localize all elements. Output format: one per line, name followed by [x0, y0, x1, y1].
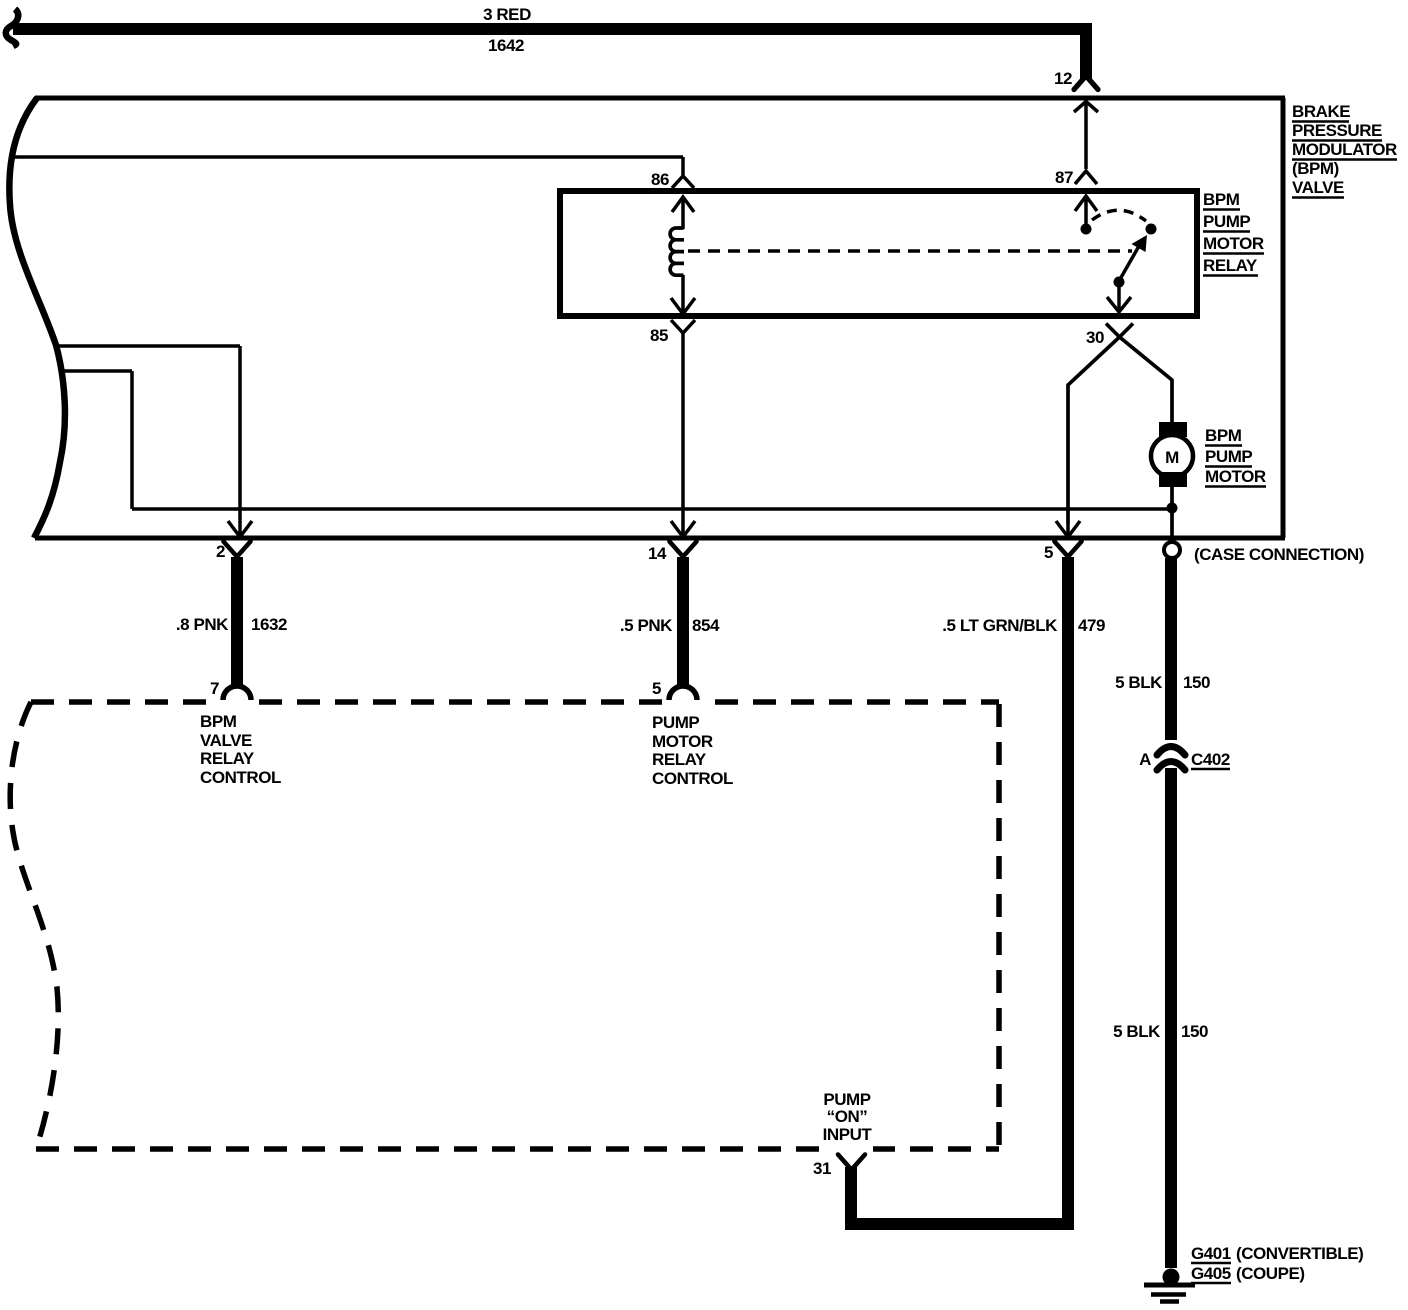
relay switch blade with arrowhead	[1119, 246, 1139, 281]
relay armature link (dashed)	[688, 249, 1132, 253]
white gap for connector 31	[830, 1143, 873, 1155]
BPM pump motor bottom terminal	[1159, 472, 1187, 487]
arrow at valve box edge (pin 14 exit)	[671, 521, 695, 537]
svg-text:“ON”: “ON”	[827, 1107, 868, 1126]
wire drop to 86	[681, 157, 685, 175]
wire internal ground bus (long horizontal)	[132, 507, 1172, 511]
junction dot at motor ground	[1167, 503, 1178, 514]
relay contact travel arc (dashed)	[1092, 210, 1146, 221]
connector pin 30 split wire (to motor)	[1106, 324, 1172, 425]
svg-text:3 RED: 3 RED	[483, 5, 531, 24]
svg-text:.5 PNK: .5 PNK	[620, 616, 673, 635]
wire internal ground stub (horizontal)	[62, 369, 132, 373]
connector C402 (inline, double chevron)	[1157, 747, 1185, 771]
svg-text:BPM: BPM	[200, 712, 237, 731]
BPM pump motor body	[1151, 435, 1193, 477]
svg-text:M: M	[1165, 448, 1179, 467]
connector pin 7 (male dome)	[223, 686, 251, 700]
svg-text:C402: C402	[1191, 750, 1230, 769]
wire .8 PNK (thick)	[231, 557, 243, 685]
svg-text:5 BLK: 5 BLK	[1113, 1022, 1161, 1041]
case connection terminal (open circle)	[1164, 542, 1180, 558]
BPM valve box right edge	[1281, 98, 1286, 538]
BPM valve box bottom edge	[35, 536, 1285, 541]
BPM pump motor top terminal	[1159, 422, 1187, 437]
connector pin 30 split wire (to pin 5)	[1068, 324, 1133, 525]
wire continuation curl (left end of 3 RED)	[6, 9, 18, 46]
svg-text:CONTROL: CONTROL	[652, 769, 733, 788]
arrow into relay at 87	[1075, 196, 1097, 224]
wire motor to case connection	[1170, 487, 1174, 541]
relay pivot 30 (dot)	[1114, 277, 1125, 288]
svg-text:1642: 1642	[488, 36, 524, 55]
dashed module box top edge	[31, 699, 999, 705]
svg-text:(CASE CONNECTION): (CASE CONNECTION)	[1194, 545, 1364, 564]
white gap for connector 5	[664, 695, 702, 708]
dashed module box bottom edge	[36, 1146, 999, 1152]
svg-text:RELAY: RELAY	[652, 750, 707, 769]
svg-text:RELAY: RELAY	[1203, 256, 1258, 275]
label BPM PUMP MOTOR	[1205, 426, 1266, 487]
label BPM PUMP MOTOR RELAY	[1203, 190, 1264, 276]
svg-text:(CONVERTIBLE): (CONVERTIBLE)	[1236, 1244, 1363, 1263]
svg-text:PRESSURE: PRESSURE	[1292, 121, 1382, 140]
svg-text:86: 86	[651, 170, 669, 189]
relay contact (dot, right)	[1146, 224, 1157, 235]
svg-text:150: 150	[1181, 1022, 1208, 1041]
svg-text:PUMP: PUMP	[652, 713, 699, 732]
BPM valve box top edge	[35, 96, 1285, 101]
arrow out of relay at 85	[671, 298, 695, 314]
wire 85 down to box edge	[681, 333, 685, 524]
svg-text:INPUT: INPUT	[823, 1125, 873, 1144]
svg-text:MOTOR: MOTOR	[1203, 234, 1264, 253]
svg-text:.5 LT GRN/BLK: .5 LT GRN/BLK	[942, 616, 1058, 635]
connector pin 85 (female Y)	[671, 320, 695, 333]
label PUMP "ON" INPUT	[823, 1090, 873, 1144]
label BPM VALVE RELAY CONTROL	[200, 712, 281, 787]
wire 3 RED drop to pin 12	[1080, 23, 1092, 79]
svg-text:854: 854	[692, 616, 720, 635]
wire internal ground stub (vertical)	[130, 371, 134, 509]
connector pin 87 (male chevron)	[1075, 171, 1097, 184]
svg-text:7: 7	[210, 679, 219, 698]
wire .5 LT GRN/BLK (thick, down / left / up to pin 31)	[851, 557, 1068, 1224]
arrow out of relay at 30	[1107, 297, 1131, 312]
label PUMP MOTOR RELAY CONTROL	[652, 713, 733, 788]
svg-text:MOTOR: MOTOR	[652, 732, 713, 751]
connector pin 14 (female cup)	[670, 542, 697, 556]
svg-text:(BPM): (BPM)	[1292, 159, 1339, 178]
connector pin 86 (male chevron)	[672, 176, 694, 188]
ground symbol G401/G405	[1144, 1277, 1195, 1302]
svg-text:G405: G405	[1191, 1264, 1231, 1283]
svg-text:479: 479	[1078, 616, 1105, 635]
svg-text:A: A	[1139, 750, 1151, 769]
svg-text:1632: 1632	[251, 615, 287, 634]
svg-text:BRAKE: BRAKE	[1292, 102, 1350, 121]
dashed module box right edge	[996, 704, 1002, 1149]
connector pin 31 (female cup)	[838, 1155, 865, 1169]
wire coil to 85 arrow	[681, 275, 685, 313]
arrow into relay at 86	[672, 197, 694, 229]
connector pin 5 (male dome, module)	[669, 686, 697, 700]
wire internal feed to 86 (horizontal)	[10, 155, 683, 159]
svg-text:85: 85	[650, 326, 668, 345]
svg-text:150: 150	[1183, 673, 1210, 692]
label BRAKE PRESSURE MODULATOR (BPM) VALVE	[1292, 102, 1397, 198]
svg-text:12: 12	[1054, 69, 1072, 88]
wire blade pivot to pin 30	[1117, 282, 1121, 312]
svg-text:5: 5	[1044, 543, 1053, 562]
svg-text:BPM: BPM	[1203, 190, 1240, 209]
svg-text:MOTOR: MOTOR	[1205, 467, 1266, 486]
svg-text:87: 87	[1055, 168, 1073, 187]
svg-text:PUMP: PUMP	[1203, 212, 1250, 231]
ground splice dot	[1163, 1269, 1180, 1286]
svg-text:BPM: BPM	[1205, 426, 1242, 445]
wire 5 BLK (thick, case to ground)	[1165, 558, 1177, 1268]
svg-text:5 BLK: 5 BLK	[1115, 673, 1163, 692]
svg-text:2: 2	[216, 542, 225, 561]
white gap for connector 7	[219, 695, 256, 708]
svg-text:CONTROL: CONTROL	[200, 768, 281, 787]
svg-text:G401: G401	[1191, 1244, 1231, 1263]
svg-text:PUMP: PUMP	[1205, 447, 1252, 466]
svg-text:RELAY: RELAY	[200, 749, 255, 768]
arrow into valve box at 12	[1074, 102, 1098, 170]
wire .5 PNK (thick)	[677, 557, 689, 685]
wire 3 RED feed (thick horizontal at top)	[13, 23, 1092, 35]
svg-text:MODULATOR: MODULATOR	[1292, 140, 1397, 159]
svg-text:VALVE: VALVE	[200, 731, 252, 750]
svg-text:.8 PNK: .8 PNK	[176, 615, 229, 634]
BPM pump motor relay box	[560, 191, 1197, 316]
connector pin 12 (male, trumpet)	[1074, 78, 1098, 90]
wire internal branch to pin 2 (horizontal)	[56, 344, 240, 348]
svg-text:5: 5	[652, 679, 661, 698]
connector pin 5 at valve (female cup)	[1055, 542, 1082, 556]
svg-text:(COUPE): (COUPE)	[1236, 1264, 1305, 1283]
wire internal branch to pin 2 (vertical)	[238, 346, 242, 524]
svg-text:14: 14	[648, 544, 667, 563]
arrow at valve box edge (pin 5 exit)	[1056, 521, 1080, 537]
relay coil	[670, 228, 684, 275]
connector pin 2 (female cup)	[224, 542, 251, 556]
BPM valve box torn left edge	[9, 98, 65, 538]
svg-text:30: 30	[1086, 328, 1104, 347]
relay contact 87 (dot)	[1081, 224, 1092, 235]
dashed module box torn left edge	[10, 702, 58, 1149]
arrow at valve box edge (pin 2 exit)	[228, 521, 252, 537]
svg-text:31: 31	[813, 1159, 831, 1178]
svg-text:VALVE: VALVE	[1292, 178, 1344, 197]
